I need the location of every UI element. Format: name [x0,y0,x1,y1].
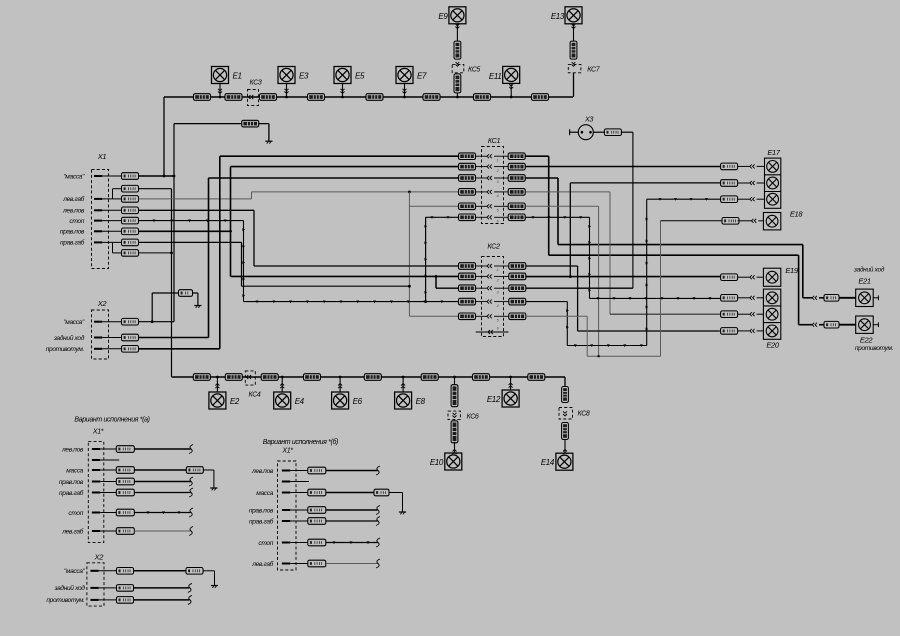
svg-text:КС8: КС8 [578,411,590,418]
svg-text:лев.габ: лев.габ [61,527,83,535]
svg-text:Е8: Е8 [416,397,426,406]
svg-text:2: 2 [496,169,499,173]
svg-text:"масса": "масса" [63,319,85,326]
svg-text:задний ход: задний ход [53,334,85,342]
svg-text:4: 4 [497,194,499,198]
svg-text:Е19: Е19 [785,266,798,275]
svg-text:Е21: Е21 [858,277,870,286]
svg-text:прав.габ: прав.габ [249,517,274,525]
svg-text:противотум.: противотум. [46,597,85,604]
svg-text:Е11: Е11 [489,72,502,81]
svg-text:Е14: Е14 [541,458,555,467]
svg-text:прав.габ: прав.габ [60,239,85,247]
svg-text:противотум.: противотум. [46,346,85,353]
svg-text:"масса": "масса" [63,173,85,180]
svg-text:5: 5 [497,319,499,323]
svg-text:X2: X2 [94,553,105,562]
svg-text:прав.пов: прав.пов [59,479,84,486]
svg-text:стоп: стоп [69,218,84,225]
svg-text:X3: X3 [584,115,593,124]
svg-text:противотум.: противотум. [855,345,894,352]
svg-text:Е13: Е13 [551,12,565,21]
svg-text:прав.пов: прав.пов [249,507,274,514]
svg-text:Вариант исполнения *(а): Вариант исполнения *(а) [74,417,149,424]
svg-text:стоп: стоп [68,510,83,517]
svg-text:Е18: Е18 [790,210,803,219]
svg-text:Е5: Е5 [355,72,365,81]
svg-text:задний ход: задний ход [853,266,885,274]
svg-text:КС4: КС4 [249,392,261,399]
svg-text:2: 2 [496,279,499,283]
svg-text:масса: масса [66,467,83,474]
svg-text:лев.пов: лев.пов [62,208,85,215]
svg-text:Е6: Е6 [353,397,363,406]
svg-text:4: 4 [497,304,499,308]
svg-text:прав.габ: прав.габ [59,489,84,497]
svg-text:стоп: стоп [258,540,273,547]
svg-text:КС1: КС1 [488,136,501,145]
svg-text:Е2: Е2 [230,397,240,406]
svg-text:КС7: КС7 [587,67,600,74]
svg-text:лев.пов: лев.пов [61,446,84,453]
svg-text:X1*: X1* [92,429,104,436]
svg-text:3: 3 [497,290,499,294]
svg-text:лев.габ: лев.габ [62,195,84,203]
svg-text:6: 6 [497,220,499,224]
svg-text:"масса": "масса" [64,568,86,575]
svg-text:5: 5 [497,209,499,213]
svg-text:Е4: Е4 [295,397,305,406]
svg-text:прав.пов: прав.пов [60,229,85,236]
svg-text:X1*: X1* [281,448,293,455]
svg-text:X2: X2 [97,299,108,308]
svg-text:лев.пов: лев.пов [251,468,274,475]
svg-text:X1: X1 [97,152,107,161]
svg-text:Е3: Е3 [299,72,309,81]
svg-text:1: 1 [497,268,499,272]
svg-text:КС2: КС2 [487,242,500,251]
svg-text:Е10: Е10 [430,458,444,467]
svg-text:Е9: Е9 [438,12,448,21]
svg-text:Е17: Е17 [767,148,780,157]
svg-text:6: 6 [497,327,499,331]
svg-text:Е1: Е1 [233,72,242,81]
svg-text:КС3: КС3 [250,79,262,86]
svg-text:Е20: Е20 [766,341,779,350]
svg-text:3: 3 [497,180,499,184]
svg-text:КС6: КС6 [467,414,479,421]
svg-text:1: 1 [497,158,499,162]
svg-text:Е7: Е7 [417,72,427,81]
svg-text:задний ход: задний ход [53,584,85,592]
svg-text:Вариант исполнения *(б): Вариант исполнения *(б) [263,438,338,446]
svg-text:лев.габ: лев.габ [251,560,273,568]
svg-text:масса: масса [256,490,273,497]
svg-text:Е22: Е22 [860,336,873,345]
svg-text:КС5: КС5 [468,67,480,74]
svg-text:Е12: Е12 [487,395,501,404]
